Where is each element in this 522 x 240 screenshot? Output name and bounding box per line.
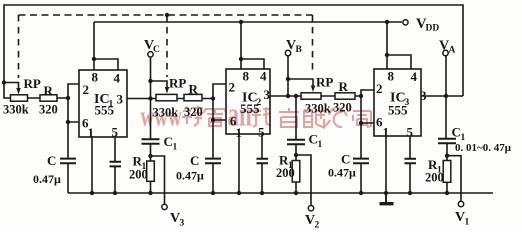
wire riser IC3 pins 8-4 <box>387 22 411 69</box>
wire V2 branch <box>296 155 311 206</box>
wire IC1 pin1 to rail <box>91 137 93 193</box>
wire RP3 wiper tie <box>288 79 313 86</box>
wire R1 stage2 to rail <box>295 182 297 193</box>
junction rail R1 stage1 <box>148 191 152 195</box>
svg-text:4: 4 <box>411 69 418 84</box>
terminal V2 <box>308 206 313 211</box>
svg-text:200: 200 <box>129 168 148 182</box>
svg-text:1: 1 <box>318 140 323 150</box>
svg-text:320: 320 <box>39 103 58 117</box>
svg-text:5: 5 <box>112 125 119 140</box>
svg-text:8: 8 <box>388 69 395 84</box>
resistor R 320 stage1 box <box>40 95 57 101</box>
svg-text:DD: DD <box>426 24 440 34</box>
junction IC3 trigger R <box>359 94 363 98</box>
RP2 wiper arrow <box>165 87 169 94</box>
svg-text:320: 320 <box>184 105 203 119</box>
junction IC2 pin6 <box>211 118 215 122</box>
wire IC1 pin2 pin6 column <box>68 84 79 158</box>
gang dashed drop RP3 <box>312 15 314 75</box>
capacitor C1 stage1 plates <box>142 139 160 144</box>
resistor RP2 box <box>156 94 177 100</box>
wire IC3 pin1 to rail <box>385 136 387 193</box>
svg-text:3: 3 <box>180 219 185 229</box>
junction rail R1 stage2 <box>294 191 298 195</box>
junction V2 node <box>294 153 298 157</box>
terminal V3 <box>162 204 167 209</box>
svg-text:C: C <box>153 45 160 55</box>
svg-text:330k: 330k <box>153 106 179 120</box>
resistor R1 stage2 box <box>292 161 300 183</box>
wire riser IC2 pins 8-4 <box>241 22 264 69</box>
svg-text:B: B <box>296 45 303 55</box>
svg-text:320: 320 <box>333 101 352 115</box>
svg-text:R: R <box>44 83 54 98</box>
wire RP2 wiper tie <box>151 81 168 88</box>
capacitor C1 stage2 plates <box>287 140 305 145</box>
terminal V1 <box>458 201 463 206</box>
terminal VC <box>148 52 153 57</box>
svg-text:3: 3 <box>420 88 427 103</box>
svg-text:0.47μ: 0.47μ <box>176 169 204 183</box>
svg-text:0. 01~0. 47μ: 0. 01~0. 47μ <box>455 142 512 154</box>
wire C stage2 to rail <box>212 163 214 193</box>
svg-text:C: C <box>190 153 199 168</box>
junction RP2 wiper tie <box>148 79 152 83</box>
svg-text:C: C <box>164 134 173 149</box>
svg-text:4: 4 <box>260 69 267 84</box>
junction RP1 wiper tie <box>2 80 6 84</box>
wire IC1 pin3 row <box>127 98 156 100</box>
terminal VB <box>285 50 290 55</box>
gang dashed rail <box>19 14 313 16</box>
svg-text:8: 8 <box>243 69 250 84</box>
junction IC1 pin6 <box>66 120 70 124</box>
wire C1 stage3 column <box>446 143 448 160</box>
wire RP1 to R to IC1 trigger <box>28 97 69 99</box>
wire RP1 wiper tie <box>4 83 19 89</box>
svg-text:555: 555 <box>95 103 115 118</box>
svg-text:4: 4 <box>114 71 121 86</box>
junction rail C pin5 stage2 <box>260 191 264 195</box>
wire RP2-R2-IC2 trigger <box>177 98 213 100</box>
svg-text:0.47μ: 0.47μ <box>328 166 356 180</box>
wire IC3 pin3 row <box>421 95 463 97</box>
junction VA node <box>444 94 448 98</box>
wire C1 stage2 column <box>295 96 297 161</box>
capacitor pin5 stage3 plates <box>405 159 417 164</box>
capacitor pin5 stage2 plates <box>257 159 269 164</box>
capacitor C stage3 plates <box>353 159 369 164</box>
svg-text:330k: 330k <box>305 102 331 116</box>
wire R1 stage3 to rail <box>446 182 448 193</box>
capacitor C stage1 plates <box>60 159 76 164</box>
svg-text:A: A <box>449 46 456 56</box>
IC2 555 timer box <box>226 69 270 134</box>
svg-text:2: 2 <box>83 82 90 97</box>
wire IC3 pin5 column <box>409 136 411 193</box>
wire IC2 pin5 column <box>261 134 263 193</box>
junction VDD rail IC2 <box>239 20 243 24</box>
svg-text:200: 200 <box>425 171 444 185</box>
svg-text:RP: RP <box>316 75 333 90</box>
svg-text:330k: 330k <box>3 103 29 117</box>
svg-text:8: 8 <box>92 70 99 85</box>
svg-text:2: 2 <box>376 81 383 96</box>
junction IC3 pin8 bridge <box>385 53 389 57</box>
terminal VDD <box>403 20 408 25</box>
svg-text:RP: RP <box>24 76 41 91</box>
wire C stage3 to rail <box>360 163 362 193</box>
wire VDD rail <box>94 21 402 23</box>
svg-text:200: 200 <box>276 166 295 180</box>
resistor R1 stage3 box <box>443 161 451 183</box>
RP3 wiper arrow <box>311 86 315 93</box>
junction VC node <box>148 96 152 100</box>
svg-text:1: 1 <box>173 143 178 153</box>
junction rail C pin5 stage3 <box>408 191 412 195</box>
wire bottom rail <box>68 192 493 194</box>
junction V1 node <box>445 154 449 158</box>
svg-text:R: R <box>339 79 349 94</box>
junction rail C pin5 stage1 <box>113 191 117 195</box>
svg-text:3: 3 <box>117 92 124 107</box>
svg-text:C: C <box>452 125 461 140</box>
capacitor pin5 stage1 plates <box>110 162 122 167</box>
junction rail IC2 pin1 <box>237 191 241 195</box>
IC1 555 timer box <box>79 70 127 137</box>
junction gang rail RP2 drop <box>165 13 169 17</box>
terminal VA <box>443 50 448 55</box>
wire V3 branch <box>151 156 165 204</box>
junction V3 node <box>148 154 152 158</box>
junction IC3 pin6 <box>359 121 363 125</box>
wire riser IC1 pins 8-4 <box>94 22 118 70</box>
svg-text:3: 3 <box>264 87 271 102</box>
gang dashed drop RP2 <box>166 15 168 77</box>
watermark <box>141 96 372 133</box>
gang dashed drop RP1 <box>18 15 20 78</box>
svg-text:555: 555 <box>240 101 260 116</box>
wire IC1 pin5 column <box>114 137 116 193</box>
svg-text:0.47μ: 0.47μ <box>33 172 61 186</box>
ground <box>385 193 387 202</box>
svg-text:C: C <box>341 152 350 167</box>
wire RP3-R3-IC3 trigger <box>321 95 361 97</box>
svg-text:1: 1 <box>88 125 95 140</box>
junction rail R1 stage3 <box>445 191 449 195</box>
wire IC3 pin2 pin6 column <box>361 90 374 158</box>
svg-text:R: R <box>189 82 199 97</box>
wire C1 stage1 column <box>150 99 152 162</box>
wire R1 stage1 to rail <box>150 181 152 193</box>
wire C stage1 to rail <box>67 163 69 193</box>
junction C1 stage2 top <box>294 94 298 98</box>
wire V1 branch <box>447 156 461 202</box>
resistor RP1 box <box>11 95 28 101</box>
junction RP3 wiper tie <box>286 77 290 81</box>
svg-text:RP: RP <box>169 76 186 91</box>
junction rail IC3 pin1 <box>384 191 388 195</box>
svg-text:2: 2 <box>315 221 320 231</box>
wire IC2 pin1 to rail <box>238 134 240 193</box>
wire feedback top line from IC3 pin3 to RP1 left <box>4 5 463 98</box>
svg-text:1: 1 <box>236 125 243 140</box>
capacitor C1 stage3 plates <box>438 139 456 144</box>
junction IC1 pin8 bridge <box>92 57 96 61</box>
wire VC column <box>150 57 152 99</box>
resistor R 320 stage2 box <box>184 94 202 100</box>
svg-text:1: 1 <box>465 218 470 228</box>
svg-text:2: 2 <box>229 80 236 95</box>
svg-text:555: 555 <box>388 103 408 118</box>
capacitor C stage2 plates <box>205 159 221 164</box>
junction rail C stage3 <box>359 191 363 195</box>
junction IC2 pin8 bridge <box>239 57 243 61</box>
junction IC2 trigger R <box>211 96 215 100</box>
svg-text:5: 5 <box>258 125 265 140</box>
resistor RP3 box <box>301 93 321 99</box>
wire VB column <box>287 56 289 96</box>
junction VDD rail IC3 <box>385 20 389 24</box>
wire IC2 pin3 row <box>270 95 301 97</box>
RP1 wiper arrow <box>16 88 20 95</box>
junction rail C stage2 <box>211 191 215 195</box>
resistor R 320 stage3 box <box>335 93 355 99</box>
junction rail IC1 pin1 <box>90 191 94 195</box>
junction IC1 trigger R <box>66 96 70 100</box>
IC3 555 timer box <box>374 69 421 136</box>
svg-text:5: 5 <box>407 125 414 140</box>
svg-text:C: C <box>47 153 56 168</box>
junction VB node <box>286 94 290 98</box>
wire VA column <box>445 56 447 139</box>
resistor R1 stage1 box <box>147 161 155 181</box>
svg-text:1: 1 <box>383 125 390 140</box>
wire IC2 pin2 pin6 column <box>213 84 226 158</box>
svg-text:C: C <box>309 132 318 147</box>
